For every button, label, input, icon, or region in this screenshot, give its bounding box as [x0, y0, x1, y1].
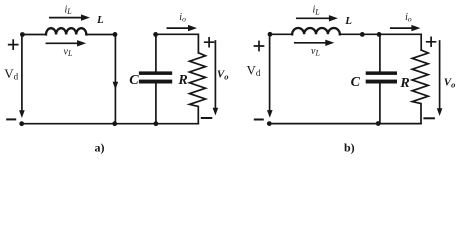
svg-text:L: L: [96, 14, 104, 26]
annotation v_L arrow (circuit a): [46, 42, 78, 44]
wire: b cap bottom lead: [379, 84, 381, 124]
node: a middle top (dot): [113, 32, 118, 37]
annotation i_o arrow (circuit a): [167, 27, 189, 29]
annotation i_L arrow (circuit a): [50, 17, 83, 19]
node: b bottom-left (dot): [267, 121, 272, 126]
wire: a cap node to top-right corner, down to resistor: [156, 34, 199, 53]
annotation v_L arrow (circuit b): [295, 42, 327, 44]
wire: a middle branch vertical with current arrow: [114, 34, 116, 123]
wire: b top-left lead to inductor: [270, 33, 292, 35]
inductor L (circuit a): [46, 28, 86, 34]
svg-text:C: C: [351, 75, 361, 90]
svg-text:R: R: [399, 76, 409, 91]
wire: a cap top lead: [155, 34, 157, 71]
annotation i_L arrow (circuit b): [297, 17, 331, 19]
node: a bottom cap (dot): [154, 121, 159, 126]
capacitor C (circuit b): top plate: [366, 71, 397, 75]
svg-text:vL: vL: [311, 46, 320, 58]
label minus (a output bottom): [202, 117, 212, 119]
wire: a inductor to middle node: [86, 34, 115, 36]
svg-text:b): b): [344, 141, 355, 155]
resistor R (circuit a): zigzag: [190, 53, 206, 124]
label + (b source top): [255, 42, 264, 51]
annotation V_o arrow (circuit b): [439, 41, 441, 109]
wire: b cap top lead: [379, 34, 381, 71]
svg-text:C: C: [129, 73, 139, 88]
node: a top-left (dot): [20, 32, 25, 37]
inductor L (circuit b): [292, 28, 340, 34]
label + (a source top): [9, 40, 18, 49]
node: b capacitor top (dot): [377, 32, 382, 37]
capacitor C (circuit a): bottom plate: [139, 80, 172, 84]
wire: a top-left lead to inductor: [22, 34, 46, 36]
annotation i_o arrow (circuit b): [391, 27, 413, 29]
svg-text:R: R: [177, 73, 187, 88]
svg-text:io: io: [405, 12, 412, 24]
label + (b output top): [427, 37, 436, 46]
label + (a output top): [205, 38, 214, 47]
wire: b inductor to corner (through cap tee): [340, 33, 421, 35]
label minus (b source bottom): [255, 119, 263, 121]
svg-text:a): a): [95, 141, 105, 155]
source V_d left branch (circuit a): wire with down arrow: [21, 35, 23, 111]
capacitor C (circuit b): bottom plate: [366, 80, 397, 84]
wire: b bottom rail: [269, 123, 421, 125]
svg-text:L: L: [344, 15, 352, 27]
node: b bottom cap (dot): [376, 121, 381, 126]
wire: a bottom rail: [22, 123, 199, 125]
svg-text:iL: iL: [313, 5, 321, 17]
label minus (b output bottom): [424, 117, 434, 119]
resistor R (circuit b): zigzag: [412, 50, 428, 123]
source V_d left branch (circuit b): wire with down arrow: [269, 34, 271, 110]
node: b rail junction (dot): [360, 32, 365, 37]
wire: b corner down to resistor: [420, 34, 422, 50]
label minus (a source bottom): [7, 118, 15, 120]
svg-text:io: io: [179, 12, 186, 24]
node: a bottom-left (dot): [19, 121, 24, 126]
annotation V_o arrow (circuit a): [214, 41, 216, 108]
node: b top-left (dot): [268, 32, 273, 37]
node: a capacitor top (dot): [153, 32, 158, 37]
svg-text:iL: iL: [65, 4, 73, 16]
node: a bottom middle (dot): [112, 121, 117, 126]
wire: a cap bottom lead: [155, 84, 157, 124]
svg-text:vL: vL: [64, 47, 73, 59]
capacitor C (circuit a): top plate: [139, 71, 172, 75]
